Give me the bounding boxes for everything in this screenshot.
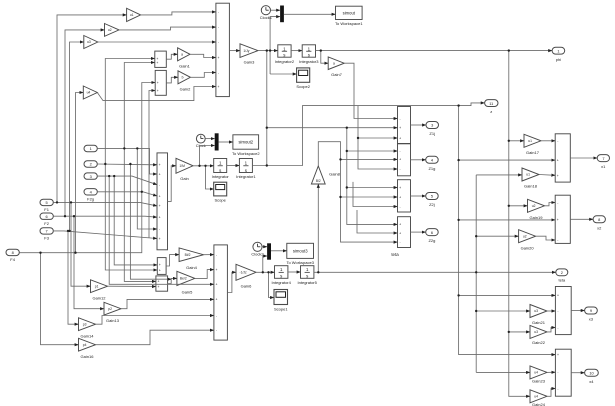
- to-workspace To Workspace2: [232, 135, 260, 156]
- gain Gain21: [530, 305, 547, 326]
- wire vteta-Gain18: [476, 174, 522, 176]
- svg-text:z: z: [490, 109, 492, 114]
- mux Mux1: [280, 6, 284, 23]
- svg-text:+: +: [159, 263, 161, 267]
- wire SB2-Gain5: [168, 278, 177, 283]
- svg-text:Bt/2: Bt/2: [185, 253, 191, 257]
- sum SumB: [398, 144, 411, 176]
- node z-c: [457, 219, 459, 221]
- mux Mux3: [267, 243, 271, 259]
- svg-text:Gain24: Gain24: [532, 402, 546, 406]
- port 4 F2g: [84, 189, 97, 202]
- wire vbundle-S2in1: [142, 83, 155, 192]
- svg-text:+: +: [159, 163, 161, 167]
- node F2-u2: [64, 215, 66, 217]
- gain u3: [84, 36, 98, 49]
- svg-text:Integrator2: Integrator2: [275, 59, 295, 64]
- svg-text:B/2: B/2: [316, 179, 321, 183]
- port 5 Z2j: [426, 193, 439, 208]
- wire vz-sum4in1: [459, 106, 556, 355]
- integrator Integrator: [212, 159, 230, 180]
- node gainout-a: [198, 165, 200, 167]
- wire vteta-main: [475, 175, 477, 373]
- node F3-u3: [68, 230, 70, 232]
- wire Gain1-T1in4: [190, 54, 216, 57]
- svg-text:p3: p3: [83, 322, 87, 326]
- wire Gain-Integrator: [193, 165, 214, 167]
- wire mux1-out: [284, 13, 336, 15]
- svg-text:3: 3: [431, 123, 433, 128]
- svg-text:-: -: [557, 387, 558, 391]
- svg-text:+: +: [159, 237, 161, 241]
- port 8 x2: [593, 216, 605, 231]
- gain u4: [83, 86, 97, 99]
- wire Gain12-SB2in2: [108, 285, 156, 287]
- wire Gain4-T3in1: [204, 254, 214, 256]
- svg-text:+: +: [218, 85, 220, 89]
- svg-text:To Workspace3: To Workspace3: [286, 260, 314, 265]
- integrator Integrator4: [272, 266, 292, 285]
- svg-text:-: -: [400, 167, 401, 171]
- wire phi-feedback-down: [266, 51, 268, 166]
- port 11 z: [485, 100, 498, 115]
- wire Integrator-Integrator1: [227, 165, 240, 167]
- wire sum4-port10: [571, 372, 584, 374]
- node gainout-b: [204, 165, 206, 167]
- svg-text:u2: u2: [108, 28, 112, 32]
- svg-text:a: a: [333, 61, 335, 65]
- svg-text:-: -: [218, 40, 219, 44]
- svg-text:+: +: [216, 298, 218, 302]
- wire Integrator1-zport: [252, 103, 484, 166]
- svg-text:9: 9: [590, 308, 592, 313]
- sum SB2: [156, 276, 168, 291]
- svg-text:Gain21: Gain21: [532, 320, 546, 325]
- svg-text:Gain22: Gain22: [532, 340, 546, 345]
- wire port2-T2in1: [97, 163, 157, 166]
- wire sumA-port3: [411, 124, 427, 126]
- svg-text:8: 8: [12, 250, 14, 255]
- svg-text:Gain7: Gain7: [331, 72, 342, 77]
- port 1: [84, 145, 97, 151]
- svg-text:2: 2: [561, 270, 563, 275]
- svg-text:a: a: [181, 53, 183, 57]
- node t3in3-top: [108, 175, 110, 177]
- svg-text:Clock1: Clock1: [260, 15, 273, 20]
- svg-text:Scope2: Scope2: [296, 84, 310, 89]
- svg-text:+: +: [159, 172, 161, 176]
- svg-text:u4: u4: [87, 91, 91, 95]
- sum T3: [214, 245, 228, 340]
- wire Gain23-sum4: [547, 371, 555, 373]
- svg-text:Scope: Scope: [215, 198, 227, 203]
- node teta-a: [317, 271, 319, 273]
- svg-text:Gain12: Gain12: [93, 296, 107, 301]
- wire vphi-Gain17: [509, 140, 524, 142]
- svg-text:-: -: [557, 309, 558, 313]
- node p2line-a: [104, 163, 106, 165]
- wire v358-sumAin3: [358, 137, 398, 139]
- gain u1: [127, 8, 141, 21]
- svg-text:1: 1: [557, 48, 559, 53]
- wire Gain14-T3in5: [96, 316, 214, 325]
- svg-text:1/Jy: 1/Jy: [243, 49, 249, 53]
- svg-text:Gain4: Gain4: [186, 265, 197, 270]
- node vphi-3: [508, 331, 510, 333]
- svg-text:+: +: [157, 89, 159, 93]
- wire vz-sumZ1in2: [459, 159, 556, 161]
- wire v347-sumCin1: [347, 187, 398, 189]
- gain Gain17: [524, 134, 541, 155]
- wire port3-T2in3: [97, 176, 157, 185]
- svg-text:+: +: [399, 231, 401, 235]
- wire F2ext-Gain13: [74, 216, 104, 309]
- svg-text:-: -: [218, 25, 219, 29]
- wire mux2-out: [219, 141, 233, 143]
- wire vphi-Gain19: [509, 205, 528, 207]
- svg-text:F2: F2: [44, 221, 49, 226]
- svg-text:-: -: [557, 139, 558, 143]
- svg-text:Z1g: Z1g: [428, 166, 435, 171]
- svg-text:Be/2: Be/2: [180, 277, 187, 281]
- integrator Integrator1: [236, 159, 256, 180]
- svg-text:Integrator1: Integrator1: [236, 174, 256, 179]
- clock Clock: [196, 134, 206, 148]
- svg-text:teta: teta: [558, 278, 565, 283]
- gain Gain(1/M): [176, 158, 193, 181]
- node vphi-1: [508, 140, 510, 142]
- svg-text:Gain1: Gain1: [179, 64, 190, 69]
- svg-text:-: -: [216, 329, 217, 333]
- sum S2: [155, 70, 166, 95]
- svg-text:-: -: [216, 253, 217, 257]
- sum SumC: [398, 180, 411, 212]
- wire Gain19-sumZ2: [545, 203, 556, 206]
- scope Scope1: [274, 290, 288, 312]
- svg-text:2: 2: [90, 162, 92, 167]
- svg-text:u1: u1: [528, 139, 532, 143]
- gain Gain12: [91, 280, 108, 301]
- wire F4ext-Gain16: [41, 253, 79, 345]
- clock Clock1: [260, 6, 273, 20]
- port 10 x4: [585, 369, 599, 384]
- node vteta-1: [475, 235, 477, 237]
- node port3line: [113, 175, 115, 177]
- wire gain8-out: [318, 142, 397, 242]
- svg-text:+: +: [159, 216, 161, 220]
- wire zdd-feedback: [267, 127, 398, 129]
- wire Integrator3-phi: [316, 50, 553, 52]
- integrator Integrator5: [298, 266, 318, 285]
- svg-text:u4: u4: [534, 371, 538, 375]
- wire vb-Gain5: [130, 164, 171, 279]
- svg-text:+: +: [158, 285, 160, 289]
- svg-text:Gain6: Gain6: [241, 284, 252, 289]
- wire v340-sumBin2: [341, 158, 398, 160]
- svg-text:Gain17: Gain17: [526, 150, 540, 155]
- node zdd-a: [266, 127, 268, 129]
- wire gain8-in: [317, 184, 319, 272]
- svg-text:-: -: [218, 71, 219, 75]
- svg-text:Scope1: Scope1: [274, 306, 288, 311]
- svg-text:+: +: [159, 204, 161, 208]
- node F3-p3: [67, 230, 69, 232]
- node z-b: [457, 159, 459, 161]
- port 8 F4: [6, 249, 19, 262]
- wire vbundle-S2in2: [149, 91, 155, 239]
- svg-text:+: +: [399, 126, 401, 130]
- svg-text:1: 1: [90, 146, 92, 151]
- wire mux2-in2: [200, 146, 215, 166]
- node F2-p2: [73, 215, 75, 217]
- wire sumZ2-port8: [570, 218, 593, 220]
- wire F3ext-Gain14: [68, 231, 79, 324]
- wire u1-T1in1: [141, 12, 216, 15]
- wire v105-SB1in2: [105, 164, 157, 270]
- wire S1-Gain1: [166, 54, 177, 59]
- svg-text:-: -: [400, 149, 401, 153]
- svg-text:-: -: [400, 205, 401, 209]
- node z-d: [457, 294, 459, 296]
- node vphi-2: [508, 205, 510, 207]
- node phi-c: [320, 49, 322, 51]
- clock Clock2: [251, 242, 264, 256]
- gain Gain13: [104, 302, 121, 323]
- svg-text:+: +: [399, 136, 401, 140]
- svg-text:F1: F1: [44, 207, 49, 212]
- sum T1: [216, 3, 230, 96]
- svg-text:simout3: simout3: [293, 249, 308, 254]
- wire F3-to-u3: [70, 42, 84, 231]
- svg-text:p1: p1: [95, 284, 99, 288]
- gain Gain7: [328, 57, 344, 77]
- port 3 Z1j: [426, 122, 439, 137]
- node port4line: [141, 191, 143, 193]
- wire vteta-Gain23: [476, 371, 530, 373]
- port 9 x3: [585, 307, 598, 322]
- svg-text:phi: phi: [556, 57, 561, 62]
- node p2line-b: [129, 163, 131, 165]
- node zfb-3: [346, 186, 348, 188]
- wire clock2-mux3: [262, 246, 267, 248]
- svg-text:Integrator5: Integrator5: [298, 280, 318, 285]
- svg-text:Gain20: Gain20: [521, 245, 535, 250]
- node phi-d: [508, 49, 510, 51]
- svg-text:F2g: F2g: [87, 197, 94, 202]
- svg-text:Integrator: Integrator: [212, 174, 230, 179]
- svg-text:Gain8: Gain8: [329, 172, 340, 177]
- wire clock1-mux1: [271, 9, 281, 11]
- wire stair-sumDin2: [357, 210, 398, 233]
- svg-text:simout: simout: [343, 11, 356, 16]
- node p1line-b: [136, 147, 138, 149]
- port 2: [84, 161, 97, 167]
- node p1line: [123, 147, 125, 149]
- svg-text:u3: u3: [534, 309, 538, 313]
- node teta-b: [475, 271, 477, 273]
- svg-text:+: +: [399, 223, 401, 227]
- wire scope-feed: [206, 166, 214, 189]
- svg-text:11: 11: [489, 101, 493, 106]
- svg-text:+: +: [156, 61, 158, 65]
- svg-text:Z2g: Z2g: [428, 238, 435, 243]
- svg-text:Gain3: Gain3: [244, 60, 255, 65]
- gain Gain24: [530, 390, 547, 406]
- sum SumA: [398, 107, 411, 144]
- svg-text:simout2: simout2: [238, 140, 253, 145]
- svg-text:-: -: [557, 370, 558, 374]
- wire Gain24-sum4: [547, 389, 555, 397]
- node F4-p4b: [39, 252, 41, 254]
- wire Gain18-sumZ1: [539, 174, 555, 177]
- wire Gain2-T1in5: [190, 73, 216, 78]
- node zfb-2: [346, 150, 348, 152]
- port 1 phi: [552, 47, 565, 62]
- wire vz-sumZ2in2: [459, 219, 556, 221]
- gain u2: [105, 24, 120, 37]
- svg-text:-1/Jz: -1/Jz: [240, 271, 247, 275]
- wire Gain6-Integrator4: [256, 271, 275, 273]
- wire Integrator5-teta: [314, 271, 556, 273]
- svg-text:Z1j: Z1j: [429, 131, 435, 136]
- svg-text:+: +: [159, 268, 161, 272]
- node g8-1: [339, 158, 341, 160]
- wire v114-SB1in1: [114, 176, 157, 265]
- wire vteta-Gain20: [476, 235, 518, 237]
- svg-text:Gain18: Gain18: [524, 184, 538, 189]
- sum S1: [155, 51, 167, 67]
- wire vphi-Gain22: [509, 331, 530, 333]
- svg-text:Z2j: Z2j: [429, 202, 435, 207]
- wire gain7-in: [321, 51, 328, 64]
- port 6 F2: [40, 213, 53, 226]
- svg-text:+: +: [399, 195, 401, 199]
- svg-text:Gain: Gain: [180, 176, 188, 181]
- svg-text:-: -: [159, 227, 160, 231]
- gain Gain14: [79, 318, 96, 339]
- svg-text:+: +: [158, 280, 160, 284]
- wire Gain21-sum3: [547, 310, 555, 312]
- svg-text:+: +: [218, 56, 220, 60]
- wire F1ext-Gain12: [71, 202, 91, 286]
- wire mux1-in2: [270, 17, 280, 74]
- to-workspace To Workspace3: [286, 243, 314, 265]
- sum SB1: [157, 258, 166, 275]
- gain Gain19: [528, 199, 545, 220]
- gain Gain22: [530, 325, 547, 345]
- gain Gain6: [236, 264, 256, 288]
- gain Gain20: [519, 230, 536, 251]
- wire Integrator4-Integrator5: [288, 271, 301, 273]
- sum T2: [157, 153, 168, 250]
- sum Sum4: [555, 349, 571, 396]
- svg-text:7: 7: [602, 156, 604, 161]
- svg-text:5: 5: [431, 194, 433, 199]
- svg-text:+: +: [399, 186, 401, 190]
- svg-text:-: -: [557, 326, 558, 330]
- wire F2-T2in6: [53, 216, 157, 217]
- svg-text:-: -: [216, 314, 217, 318]
- port 4 Z1g: [426, 156, 439, 171]
- svg-text:b: b: [182, 76, 184, 80]
- wire gain7-sumAin1: [344, 63, 397, 118]
- wire vz-sum3in1: [459, 294, 556, 296]
- wire Gain17-sumZ1: [541, 140, 555, 142]
- gain Gain4: [179, 248, 203, 270]
- node g6-a: [262, 271, 264, 273]
- scope Scope2: [296, 68, 310, 89]
- svg-text:u3: u3: [534, 330, 538, 334]
- svg-text:p4: p4: [83, 343, 87, 347]
- svg-text:+: +: [157, 81, 159, 85]
- gain Gain16: [79, 338, 96, 359]
- svg-text:+: +: [159, 194, 161, 198]
- gain Gain18: [522, 168, 539, 189]
- svg-text:p2: p2: [108, 307, 112, 311]
- wire v347-sumDin1: [347, 128, 398, 225]
- wire Gain13-T3in4: [121, 299, 214, 308]
- gain Gain23: [530, 366, 547, 384]
- wire sumZ1-port7: [570, 157, 597, 159]
- gain Gain8: [311, 166, 340, 184]
- node g8-2: [339, 196, 341, 198]
- svg-text:6: 6: [46, 214, 48, 219]
- svg-text:+: +: [557, 353, 559, 357]
- gain Gain1: [178, 48, 191, 69]
- wire mux3-out: [271, 250, 287, 252]
- svg-text:5: 5: [46, 200, 48, 205]
- node z-a: [457, 104, 459, 106]
- svg-text:-: -: [400, 117, 401, 121]
- wire v340-sumCin2: [341, 196, 398, 198]
- wire vteta-Gain21: [476, 310, 530, 312]
- wire v358-sumBin3: [358, 106, 398, 169]
- scope Scope: [214, 182, 227, 203]
- svg-text:+: +: [216, 283, 218, 287]
- wire T1-Gain3: [229, 50, 240, 52]
- svg-text:3: 3: [90, 174, 92, 179]
- port 3: [84, 173, 97, 179]
- svg-text:-: -: [557, 201, 558, 205]
- wire vbundle-T2in7: [137, 148, 157, 229]
- wire stair-sumCin3: [353, 182, 398, 207]
- node F1-u1: [56, 201, 58, 203]
- svg-text:+: +: [557, 294, 559, 298]
- svg-text:Gain23: Gain23: [532, 379, 546, 384]
- svg-text:-: -: [400, 240, 401, 244]
- wire u2-T1in2: [119, 27, 216, 30]
- wire F1ext-to-u4: [76, 93, 84, 253]
- svg-text:+: +: [557, 218, 559, 222]
- wire sumD-port6: [411, 231, 426, 233]
- wire Gain5-T3in2: [195, 270, 214, 279]
- wire port4-T2in4: [97, 192, 157, 196]
- svg-text:Gain16: Gain16: [81, 354, 95, 359]
- wire scope1-feed: [269, 272, 275, 297]
- wire T3-Gain6: [227, 272, 236, 292]
- to-workspace To Workspace1: [335, 6, 363, 26]
- node vteta-2: [475, 310, 477, 312]
- node phi-a: [266, 49, 268, 51]
- port 2 teta: [556, 269, 568, 283]
- port 5 F1: [40, 199, 53, 212]
- svg-text:Integrator3: Integrator3: [299, 59, 319, 64]
- port 7 x1: [597, 155, 609, 170]
- svg-text:Gain14: Gain14: [81, 334, 95, 339]
- svg-text:7: 7: [46, 229, 48, 234]
- wire scope2-feed: [270, 73, 297, 75]
- svg-text:Gain2: Gain2: [180, 87, 191, 92]
